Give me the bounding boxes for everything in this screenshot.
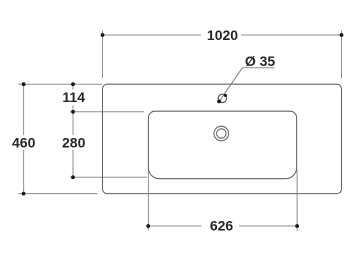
- svg-text:114: 114: [62, 89, 85, 105]
- svg-text:1020: 1020: [207, 27, 238, 43]
- svg-text:460: 460: [12, 134, 36, 150]
- svg-text:626: 626: [210, 217, 234, 233]
- svg-text:280: 280: [62, 134, 86, 150]
- svg-text:Ø 35: Ø 35: [245, 53, 276, 69]
